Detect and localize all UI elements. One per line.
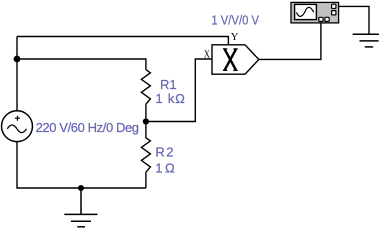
svg-text:X: X	[204, 50, 210, 61]
svg-text:1 Ω: 1 Ω	[155, 160, 175, 175]
svg-text:Y: Y	[231, 32, 239, 43]
svg-text:1 kΩ: 1 kΩ	[155, 91, 185, 106]
svg-text:R1: R1	[160, 77, 177, 92]
svg-text:1 V/V/0 V: 1 V/V/0 V	[211, 12, 259, 27]
svg-text:220 V/60 Hz/0 Deg: 220 V/60 Hz/0 Deg	[36, 120, 139, 135]
svg-text:R2: R2	[155, 145, 175, 160]
